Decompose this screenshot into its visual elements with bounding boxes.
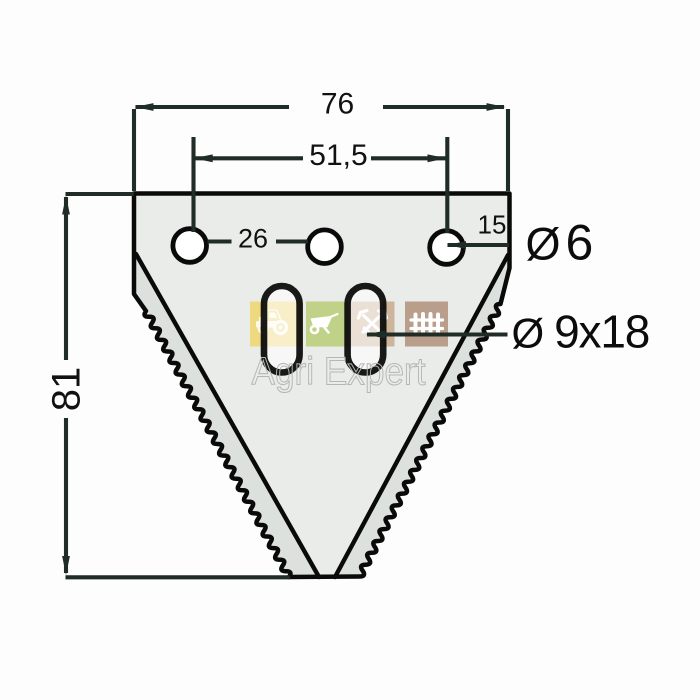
svg-text:81: 81 xyxy=(45,367,89,412)
svg-text:51,5: 51,5 xyxy=(309,139,367,172)
svg-text:Ø9x18: Ø9x18 xyxy=(512,306,650,358)
svg-text:Ø6: Ø6 xyxy=(526,215,594,271)
svg-text:Agri Expert: Agri Expert xyxy=(252,350,426,393)
svg-text:15: 15 xyxy=(478,210,507,240)
svg-text:76: 76 xyxy=(321,87,354,120)
svg-text:26: 26 xyxy=(238,224,268,254)
